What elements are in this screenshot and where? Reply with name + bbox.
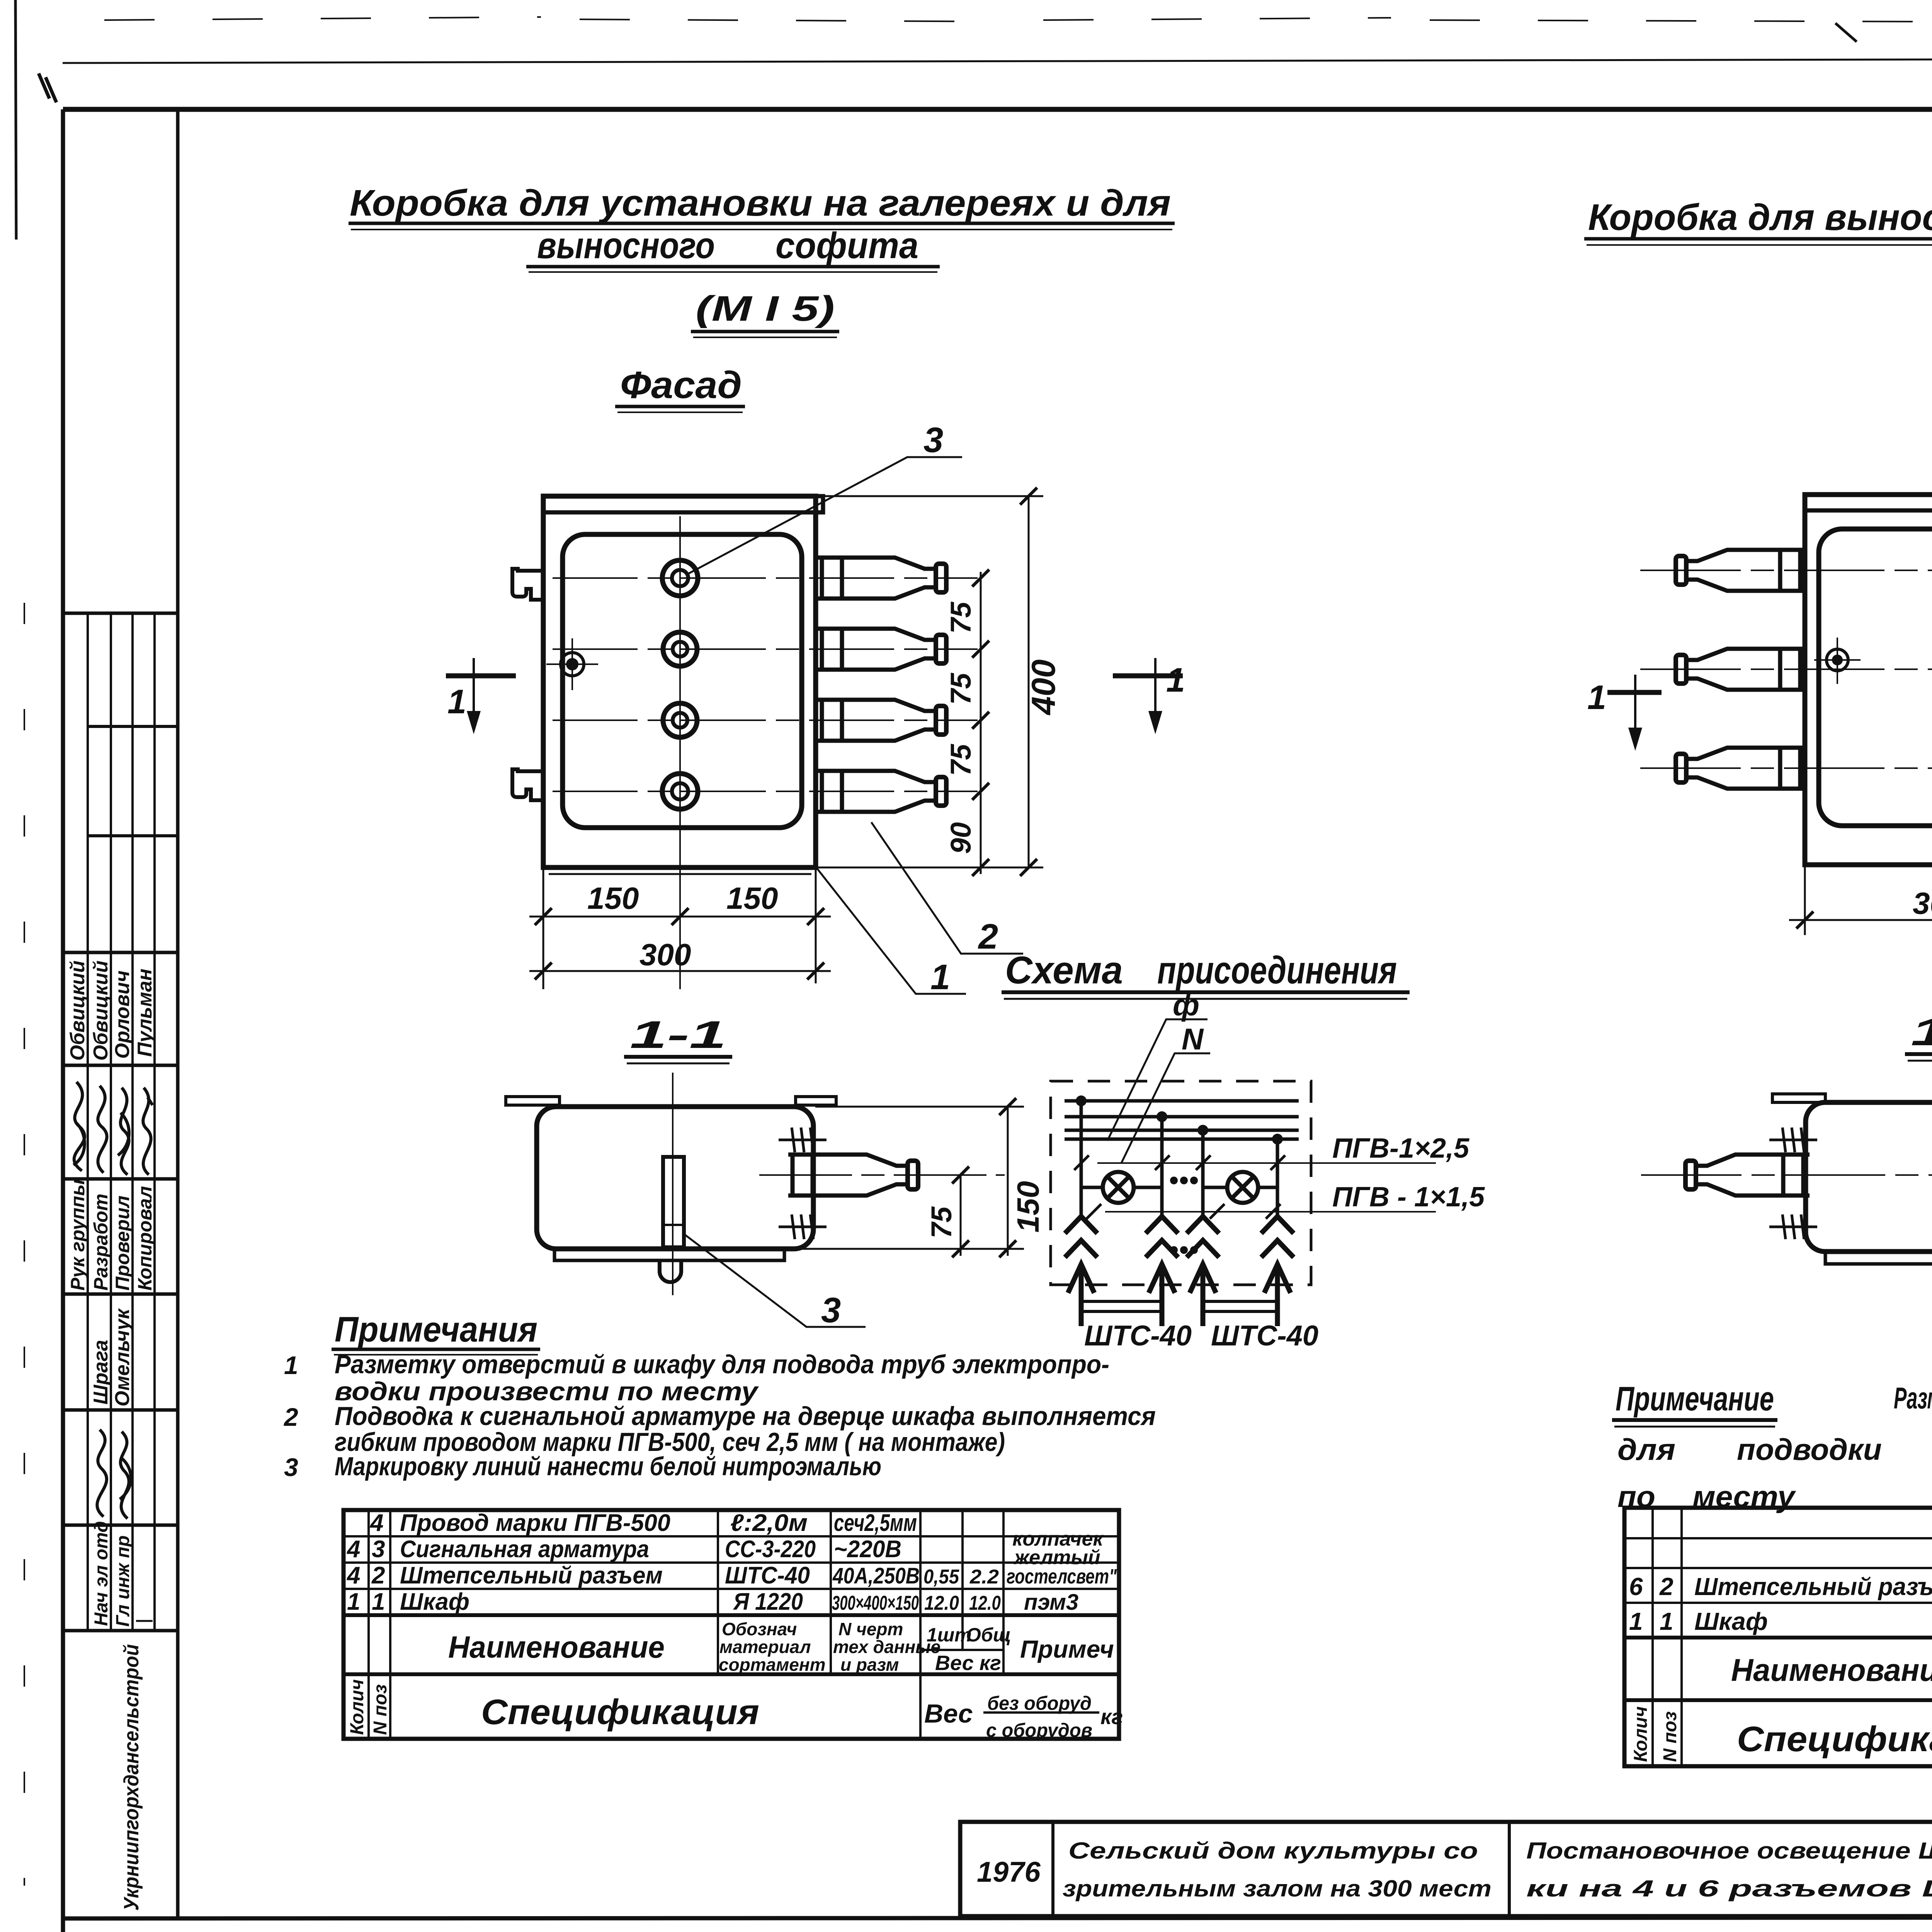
- dim line 150+150: [529, 916, 831, 918]
- bottom dim 300: [1805, 867, 1932, 935]
- strip verticals: [87, 613, 89, 1631]
- svg-text:зрительным залом на 300 мес: зрительным залом на 300 мест: [1063, 1876, 1492, 1901]
- lamp symbol 1: [1103, 1172, 1134, 1203]
- svg-text:300: 300: [639, 937, 691, 972]
- svg-text:2: 2: [978, 917, 998, 956]
- svg-text:Шкаф: Шкаф: [400, 1588, 469, 1615]
- row lines: [1624, 1537, 1932, 1539]
- plug left 2: [1676, 649, 1806, 690]
- svg-text:3: 3: [284, 1453, 298, 1481]
- svg-text:Примеч: Примеч: [1020, 1635, 1114, 1663]
- svg-text:материал: материал: [719, 1637, 811, 1657]
- bus wire 4: [1065, 1138, 1299, 1141]
- box body (side view): [537, 1107, 813, 1249]
- door lock with crosshair: [1832, 655, 1843, 665]
- cabinet box outline: [1805, 495, 1932, 865]
- svg-text:150: 150: [587, 881, 639, 915]
- svg-text:ШТС-40: ШТС-40: [1084, 1320, 1192, 1352]
- svg-text:1: 1: [447, 682, 466, 721]
- svg-text:75: 75: [945, 601, 977, 634]
- svg-text:1: 1: [1587, 678, 1606, 716]
- bolt marks left plug: [1769, 1128, 1817, 1152]
- svg-text:Рук группы: Рук группы: [67, 1179, 88, 1291]
- dim line 300: [529, 970, 831, 972]
- bolt marks bottom: [779, 1214, 827, 1239]
- contact 3: [1187, 1216, 1219, 1326]
- bracket group 1: [1081, 1301, 1162, 1311]
- svg-text:Схема: Схема: [1005, 949, 1123, 992]
- plug left 1: [1676, 550, 1806, 591]
- svg-text:1: 1: [1660, 1607, 1673, 1635]
- svg-text:1: 1: [372, 1588, 385, 1615]
- signal lamp side bar: [663, 1157, 684, 1247]
- svg-text:ШТС-40: ШТС-40: [1211, 1320, 1318, 1352]
- signature 5: [97, 1430, 107, 1517]
- signature 3: [118, 1088, 129, 1175]
- svg-text:4: 4: [346, 1562, 360, 1589]
- dots between lamps: [1170, 1177, 1198, 1184]
- svg-text:Наименование: Наименование: [1731, 1653, 1932, 1688]
- leader 1 to box corner: [817, 868, 966, 994]
- Вес кг sub line: [920, 1649, 1003, 1651]
- svg-text:Разметку: Разметку: [1894, 1381, 1932, 1415]
- mark in нач эл отд row: [136, 1620, 153, 1622]
- page top torn edge dashes: [104, 17, 1932, 22]
- plug connector left side: [1685, 1155, 1810, 1196]
- plug connector 3: [816, 700, 946, 741]
- svg-text:ПГВ-1×2,5: ПГВ-1×2,5: [1332, 1133, 1469, 1164]
- signal lamp 3: [663, 703, 697, 737]
- svg-text:для: для: [1617, 1432, 1675, 1466]
- svg-text:Вес: Вес: [924, 1699, 973, 1728]
- mounting hook bottom left: [512, 769, 543, 800]
- strip right edge: [176, 109, 180, 1918]
- svg-text:1-1: 1-1: [1911, 1010, 1932, 1054]
- signature 1: [73, 1082, 85, 1171]
- svg-text:кг: кг: [1100, 1704, 1123, 1729]
- plug connector 4: [816, 771, 946, 812]
- svg-text:и разм: и разм: [840, 1655, 899, 1675]
- svg-text:тех данные: тех данные: [833, 1637, 940, 1657]
- svg-text:3: 3: [923, 420, 943, 460]
- door lock with crosshair: [566, 658, 578, 670]
- bus wire 1: [1065, 1099, 1299, 1103]
- right mounting lug: [796, 1097, 836, 1105]
- left mounting lug: [506, 1097, 560, 1105]
- dim 150 line: [1007, 1107, 1009, 1256]
- signature 6: [120, 1432, 131, 1519]
- cabinet door (rounded): [563, 534, 802, 828]
- svg-text:1шт: 1шт: [927, 1624, 972, 1646]
- svg-text:Шрага: Шрага: [90, 1340, 112, 1405]
- svg-text:Наименование: Наименование: [448, 1630, 665, 1664]
- svg-text:Шкаф: Шкаф: [1694, 1607, 1768, 1635]
- svg-text:сеч2,5мм: сеч2,5мм: [834, 1510, 917, 1536]
- svg-text:Колич: Колич: [1631, 1706, 1651, 1762]
- svg-text:75: 75: [945, 743, 977, 776]
- svg-text:Я 1220: Я 1220: [733, 1588, 803, 1615]
- svg-text:1: 1: [347, 1588, 360, 1615]
- svg-text:Коробка для выносных боко: Коробка для выносных боковых прожекторов: [1588, 197, 1932, 238]
- svg-text:Гл инж пр: Гл инж пр: [113, 1536, 133, 1627]
- svg-text:Маркировку линий нанести бел: Маркировку линий нанести белой нитроэмал…: [335, 1452, 881, 1481]
- contact 1: [1065, 1216, 1097, 1326]
- svg-text:СС-3-220: СС-3-220: [725, 1536, 816, 1563]
- main frame top: [63, 107, 1932, 112]
- svg-text:присоединения: присоединения: [1157, 949, 1397, 992]
- plug centre line: [759, 1174, 1005, 1176]
- lamp symbol 2: [1227, 1172, 1258, 1203]
- svg-text:Фасад: Фасад: [620, 364, 742, 406]
- junction dot 2: [1156, 1111, 1167, 1122]
- svg-text:с оборудов: с оборудов: [986, 1719, 1092, 1741]
- section mark 1 left: [1607, 690, 1662, 695]
- column lines: [1651, 1508, 1654, 1766]
- svg-text:Примечания: Примечания: [335, 1310, 537, 1349]
- dim line 400: [1028, 496, 1030, 867]
- table frame: [344, 1510, 1119, 1739]
- drop wire 3: [1201, 1130, 1205, 1216]
- wire label ПГВ-1x1,5: [1105, 1211, 1436, 1213]
- svg-text:75: 75: [945, 672, 977, 705]
- svg-text:Штепсельный разъем: Штепсельный разъем: [400, 1562, 663, 1589]
- signal lamp 1: [662, 560, 698, 596]
- main frame left: [61, 109, 65, 1932]
- svg-text:2: 2: [371, 1562, 385, 1589]
- strip grid horizontals: [63, 612, 178, 615]
- svg-text:Разработ: Разработ: [90, 1194, 112, 1291]
- signature 4: [143, 1088, 153, 1175]
- svg-text:ки на 4 и 6 разъемов: ки на 4 и 6 разъемов ШТС-40: [1526, 1876, 1932, 1901]
- svg-text:Орлович: Орлович: [111, 971, 134, 1059]
- svg-text:Пульман: Пульман: [134, 969, 156, 1057]
- extension lines: [543, 869, 816, 989]
- dim 75 line: [960, 1175, 962, 1256]
- svg-text:1: 1: [930, 957, 950, 997]
- svg-text:150: 150: [726, 881, 778, 915]
- svg-text:3: 3: [372, 1536, 385, 1563]
- svg-text:Вес кг: Вес кг: [935, 1651, 1001, 1675]
- svg-text:Общ: Общ: [966, 1624, 1011, 1646]
- dim line 75/90 column: [980, 572, 982, 874]
- top centre pen mark: [1835, 23, 1857, 42]
- table frame: [1624, 1508, 1932, 1766]
- svg-text:Укрниипгорхдансельстрой: Укрниипгорхдансельстрой: [120, 1644, 143, 1911]
- svg-text:1: 1: [1166, 661, 1185, 699]
- svg-text:Омельчук: Омельчук: [111, 1308, 134, 1406]
- svg-text:(М I 5): (М I 5): [696, 289, 835, 328]
- svg-text:Коробка для установки на г: Коробка для установки на галереях и для: [350, 182, 1171, 224]
- plug connector side: [788, 1155, 918, 1196]
- svg-text:12.0: 12.0: [969, 1592, 1001, 1614]
- svg-text:300×400×150: 300×400×150: [832, 1592, 919, 1614]
- cabinet box outline: [543, 496, 816, 867]
- svg-text:Нач эл отд: Нач эл отд: [91, 1521, 112, 1626]
- svg-text:Копировал: Копировал: [134, 1186, 156, 1291]
- svg-text:без оборуд: без оборуд: [987, 1692, 1092, 1714]
- svg-text:ШТС-40: ШТС-40: [725, 1562, 810, 1589]
- svg-text:6: 6: [1629, 1573, 1643, 1600]
- svg-text:Проверил: Проверил: [112, 1196, 133, 1291]
- svg-text:2: 2: [1659, 1573, 1673, 1600]
- junction dot 1: [1076, 1095, 1087, 1106]
- outer thin border top: [63, 58, 1932, 63]
- svg-text:Сигнальная арматура: Сигнальная арматура: [400, 1536, 649, 1563]
- svg-text:сортамент: сортамент: [719, 1655, 826, 1675]
- contact 4: [1261, 1216, 1294, 1326]
- bottom flange: [1825, 1252, 1932, 1264]
- svg-text:1-1: 1-1: [630, 1013, 726, 1056]
- svg-text:Обознач: Обознач: [722, 1619, 797, 1639]
- leader 3: [683, 1233, 866, 1327]
- svg-text:12.0: 12.0: [924, 1592, 959, 1614]
- svg-text:75: 75: [925, 1206, 957, 1238]
- bus wire 3: [1065, 1129, 1299, 1132]
- lamp 2 branch: [1203, 1186, 1277, 1189]
- box body (side view): [1806, 1102, 1932, 1252]
- signal lamp 2: [663, 632, 697, 666]
- svg-text:ПГВ - 1×1,5: ПГВ - 1×1,5: [1332, 1182, 1485, 1213]
- cabinet lid edge: [1805, 509, 1932, 513]
- svg-text:2: 2: [283, 1403, 298, 1431]
- svg-text:подводки: подводки: [1737, 1432, 1882, 1466]
- title block frame: [960, 1822, 1932, 1916]
- svg-text:300: 300: [1913, 886, 1932, 920]
- svg-text:Примечание: Примечание: [1616, 1379, 1774, 1418]
- bracket group 2: [1203, 1301, 1277, 1311]
- lamp centre lines: [553, 577, 978, 579]
- bus wire 2: [1065, 1115, 1299, 1119]
- svg-text:~220В: ~220В: [834, 1536, 901, 1563]
- svg-text:Спецификация: Спецификация: [481, 1692, 759, 1732]
- svg-text:N черт: N черт: [838, 1619, 903, 1639]
- plug left 3: [1676, 748, 1806, 789]
- lamp 1 branch: [1081, 1186, 1162, 1189]
- left stray vertical line: [15, 0, 16, 240]
- fraction line in спецификация: [983, 1711, 1099, 1714]
- bolt marks top: [779, 1128, 827, 1152]
- svg-text:ф: ф: [1173, 988, 1199, 1022]
- bottom flange: [554, 1249, 784, 1260]
- svg-text:софита: софита: [776, 225, 918, 266]
- plug connector 1: [816, 558, 946, 599]
- drop wire 2: [1160, 1117, 1164, 1216]
- column lines: [367, 1510, 370, 1739]
- box bottom lip: [549, 873, 811, 875]
- left edge pen ticks: [39, 73, 56, 102]
- svg-text:выносного: выносного: [537, 225, 715, 266]
- leader 2 to plug: [871, 822, 1023, 954]
- svg-text:1: 1: [1629, 1607, 1643, 1635]
- svg-text:гостелсвет": гостелсвет": [1007, 1565, 1117, 1588]
- svg-text:3: 3: [821, 1291, 841, 1330]
- drop wire 4: [1276, 1139, 1279, 1216]
- dots bottom: [1170, 1246, 1198, 1254]
- svg-text:N поз: N поз: [370, 1684, 391, 1735]
- svg-text:Провод марки ПГВ-500: Провод марки ПГВ-500: [400, 1510, 670, 1536]
- svg-text:0,55: 0,55: [923, 1566, 959, 1588]
- svg-text:Спецификация: Спецификация: [1737, 1719, 1932, 1759]
- section mark 1 left: [446, 673, 516, 679]
- svg-text:40А,250В: 40А,250В: [832, 1563, 920, 1588]
- junction dot 3: [1197, 1125, 1208, 1136]
- contact 2: [1146, 1216, 1178, 1326]
- svg-text:Разметку отверстий в шкафу: Разметку отверстий в шкафу для подвода т…: [335, 1350, 1109, 1379]
- junction dot 4: [1272, 1134, 1283, 1145]
- wire label ПГВ-1x2,5: [1097, 1162, 1436, 1164]
- svg-text:4: 4: [346, 1536, 360, 1563]
- svg-text:Подводка к сигнальной армат: Подводка к сигнальной арматуре на дверце…: [335, 1401, 1156, 1431]
- left mounting lug: [1772, 1094, 1825, 1102]
- dashed enclosure box: [1051, 1081, 1311, 1285]
- latch under flange: [660, 1260, 681, 1282]
- cabinet door (rounded): [1819, 529, 1932, 826]
- vertical centre line: [679, 516, 681, 989]
- centre line vertical: [672, 1073, 673, 1295]
- svg-text:Постановочное освещение: Постановочное освещение Штепсельные коро…: [1526, 1838, 1932, 1864]
- svg-text:Штепсельный разъем: Штепсельный разъем: [1694, 1573, 1932, 1600]
- svg-text:1: 1: [284, 1351, 298, 1379]
- row lines: [344, 1535, 1119, 1537]
- frame bottom (above margin band): [63, 1917, 1932, 1918]
- signal lamp 4: [662, 774, 698, 809]
- svg-text:пэм3: пэм3: [1024, 1590, 1078, 1615]
- svg-text:N: N: [1182, 1022, 1204, 1056]
- centre line: [1641, 1174, 1932, 1176]
- svg-text:400: 400: [1025, 660, 1062, 716]
- svg-text:Сельский дом культуры со: Сельский дом культуры со: [1068, 1838, 1478, 1864]
- svg-text:N поз: N поз: [1660, 1711, 1680, 1762]
- signature 2: [98, 1086, 107, 1173]
- leader 3 to lamp 1: [686, 457, 962, 575]
- plug centre lines: [1640, 570, 1932, 571]
- drop wire 1: [1080, 1101, 1083, 1216]
- section mark 1 right: [1113, 673, 1183, 679]
- plug connector 2: [816, 629, 946, 670]
- svg-text:2.2: 2.2: [969, 1566, 999, 1588]
- svg-text:Обвицкий: Обвицкий: [66, 961, 89, 1061]
- mounting hook top left: [512, 569, 543, 600]
- svg-text:Обвицкий: Обвицкий: [90, 961, 112, 1061]
- svg-text:Колич: Колич: [347, 1679, 367, 1735]
- cabinet lid edge: [543, 496, 823, 512]
- svg-text:90: 90: [945, 822, 977, 854]
- svg-text:1976: 1976: [977, 1856, 1041, 1888]
- svg-text:150: 150: [1011, 1181, 1045, 1233]
- svg-text:4: 4: [369, 1510, 383, 1536]
- svg-text:ℓ:2,0м: ℓ:2,0м: [730, 1510, 808, 1536]
